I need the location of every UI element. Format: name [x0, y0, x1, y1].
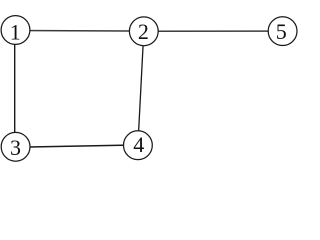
- svg-text:3: 3: [10, 135, 21, 160]
- svg-text:5: 5: [276, 19, 287, 44]
- svg-text:4: 4: [133, 132, 144, 157]
- svg-text:2: 2: [138, 19, 149, 44]
- svg-text:1: 1: [10, 20, 21, 45]
